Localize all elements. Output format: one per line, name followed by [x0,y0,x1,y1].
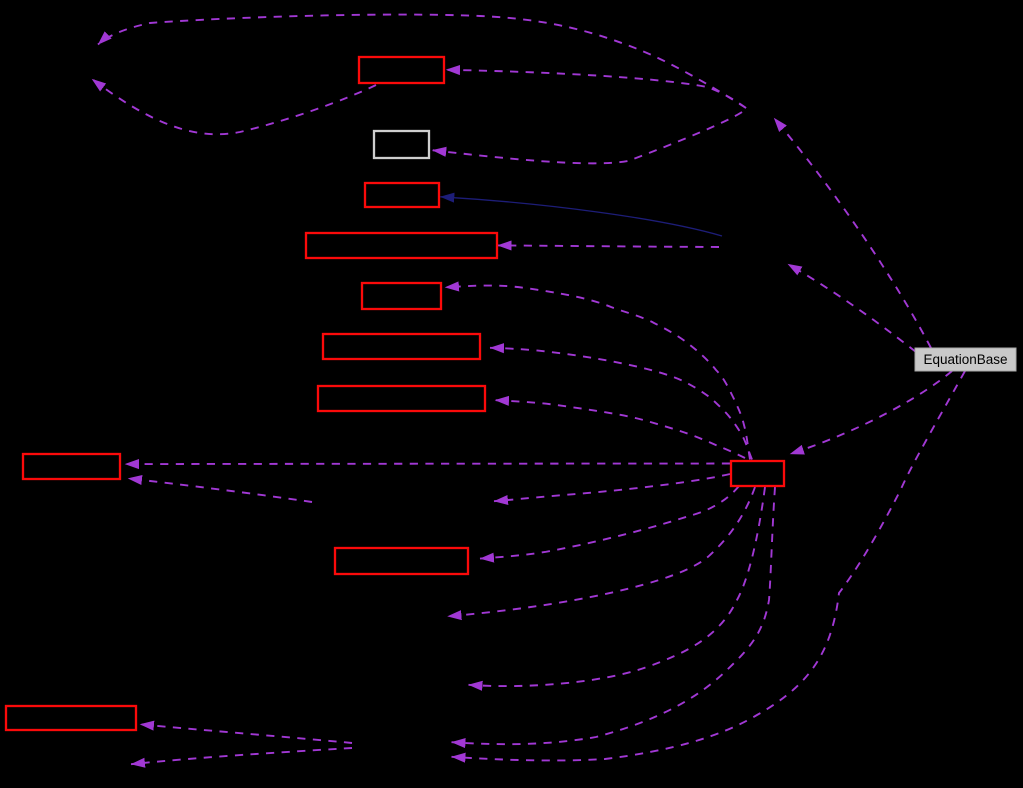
wire: bottom node NB to bottom-left arrow [131,748,352,764]
wire: EquationBase to node N2 [788,264,916,352]
wire: edge from box A to left arrow [92,79,376,134]
wire: solid blue inheritance edge to box C [440,197,722,236]
wire: EquationBase to box I [790,371,952,454]
wire: bottom node NB to box K [140,724,352,743]
wire: box I to invisible node arrow y=684 [469,487,766,686]
wire: box I to box G [495,400,745,458]
node box H [23,454,120,479]
node box K [6,706,136,730]
wire: edge to box B [432,112,742,163]
wire: EquationBase long curve to bottom node NB [452,371,966,760]
node box D [306,233,497,258]
wire: box I to box F [490,348,752,460]
wire: edge to box A [446,70,746,108]
wire: edge to box D [498,245,720,247]
node box G [318,386,485,411]
wire: box I to box E [445,286,750,460]
wire: box I to invisible node arrow y=615 [448,487,756,616]
wire: middle invisible node to box H (lower arrow) [128,478,312,502]
wire: box I to box J [480,486,739,559]
node box J [335,548,468,574]
wire: box I to bottom node NB [452,487,776,744]
wire: EquationBase to top node N1 [774,118,931,348]
svg-text:EquationBase: EquationBase [923,352,1007,367]
node box E [362,283,441,309]
node box C [365,183,439,207]
node EquationBase [915,348,1016,371]
node box F [323,334,480,359]
node box A [359,57,444,83]
node box I (hub) [731,461,784,486]
wire: box I to middle invisible node [494,474,730,501]
node box B (grey border) [374,131,429,158]
wire: box I to box H (long horizontal) [125,463,730,466]
